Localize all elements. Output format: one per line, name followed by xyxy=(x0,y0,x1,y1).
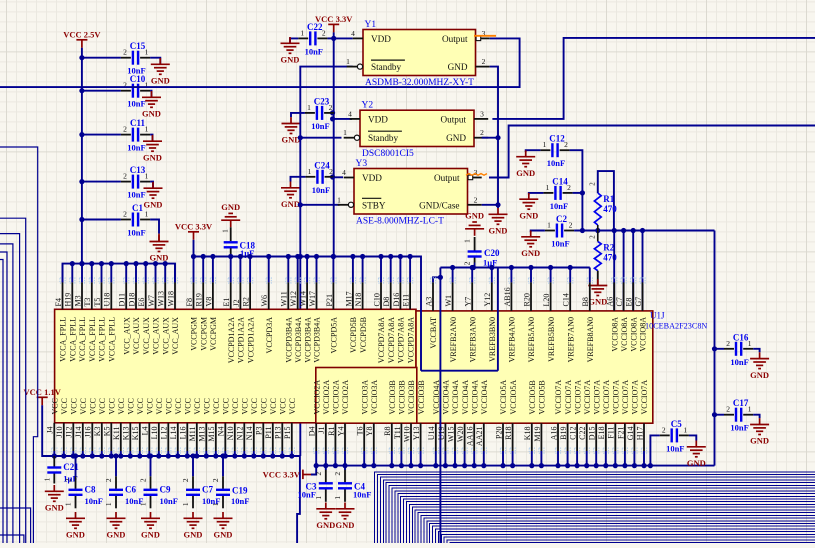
svg-text:VCC: VCC xyxy=(51,398,60,414)
pin AB16 (VREFB4AN0) top xyxy=(509,278,514,283)
wire Y2 Output net to right edge xyxy=(492,38,815,119)
ground of oscillator GND net xyxy=(489,208,508,224)
junction BA/P13 xyxy=(280,453,285,458)
wire C12 pin1 to GND xyxy=(526,150,541,152)
wire C14 pin1 to GND xyxy=(529,193,544,195)
svg-text:L12: L12 xyxy=(160,427,169,440)
svg-text:2: 2 xyxy=(474,195,478,204)
pin 2 GND of Y3 xyxy=(468,204,482,206)
pin W10 (VCCIO3B) bottom xyxy=(408,448,413,453)
capacitor C10 xyxy=(121,84,150,98)
pin W20 (VCCIO4A) bottom xyxy=(462,448,467,453)
pin F11 (VCCIO7A) bottom xyxy=(613,448,618,453)
capacitor C15 xyxy=(121,51,150,65)
pin U19 (VCCIO4A) bottom xyxy=(443,448,448,453)
junction rail/C24/Y3 VDD xyxy=(330,174,335,179)
capacitor C9 xyxy=(144,476,158,508)
power port VCC 3.3V (middle) xyxy=(188,232,199,240)
wire bus B3 xyxy=(440,267,589,269)
svg-text:GND: GND xyxy=(221,202,240,212)
pin M15 (VCC) bottom xyxy=(213,448,218,453)
wire v3 vertical through boxes xyxy=(439,268,441,544)
svg-text:C15: C15 xyxy=(130,41,146,51)
junction rail/C23 xyxy=(330,110,335,115)
wire VCC3.3 port to bus BB xyxy=(311,466,316,475)
capacitor C13 xyxy=(121,175,150,189)
pin H19 (VCCA_FPLL) top xyxy=(70,278,75,283)
svg-text:VCCIO2A: VCCIO2A xyxy=(322,380,331,415)
junction BA/L12 xyxy=(166,453,171,458)
svg-text:VCCPGM: VCCPGM xyxy=(199,317,208,351)
svg-text:GND: GND xyxy=(336,520,355,530)
junction BB/J1 xyxy=(323,463,328,468)
svg-text:C7: C7 xyxy=(615,297,624,306)
pin N4 (VCC) bottom xyxy=(223,448,228,453)
svg-text:GND/Case: GND/Case xyxy=(419,200,459,210)
junction standby/Y2 xyxy=(298,135,303,140)
pin A16 (VCCIO7A) bottom xyxy=(555,448,560,453)
pin M3 (VCCA_FPLL) top xyxy=(79,278,84,283)
wire standby net Y1 to bus xyxy=(300,67,352,257)
junction BB/AA21 xyxy=(481,463,486,468)
wire bus BA to C8 xyxy=(75,456,77,476)
wire C23 pin1 to GND xyxy=(291,113,305,117)
junction B2/W6 xyxy=(266,254,271,259)
junction BB/R8 xyxy=(389,463,394,468)
svg-text:K11: K11 xyxy=(112,427,121,440)
svg-text:GND: GND xyxy=(151,76,170,86)
svg-text:VCCPD1A2A: VCCPD1A2A xyxy=(237,317,246,363)
svg-text:U19: U19 xyxy=(437,427,446,441)
svg-text:VCCPGM: VCCPGM xyxy=(209,317,218,351)
svg-text:Output: Output xyxy=(440,114,466,124)
svg-text:C10: C10 xyxy=(130,74,146,84)
pin W18 (VCC_AUX) top xyxy=(172,278,177,283)
pin J2 (VCCPD1A2A) top xyxy=(238,278,243,283)
wire C2 net to pin G7 xyxy=(642,231,644,333)
pin T3 (VCCA_FPLL) top xyxy=(89,278,94,283)
svg-text:T11: T11 xyxy=(393,427,402,440)
junction BA/N14 xyxy=(251,453,256,458)
svg-text:VCCIO8A: VCCIO8A xyxy=(610,317,619,352)
svg-text:J16: J16 xyxy=(84,427,93,438)
pin H17 (VCCIO7A) bottom xyxy=(641,448,646,453)
svg-text:10nF: 10nF xyxy=(127,190,145,200)
svg-text:B8: B8 xyxy=(581,297,590,306)
svg-text:VDD: VDD xyxy=(368,114,388,124)
ground of C2 xyxy=(521,231,540,247)
junction B3/W1 xyxy=(450,265,455,270)
svg-text:D16: D16 xyxy=(392,293,401,307)
svg-text:GND: GND xyxy=(316,520,335,530)
svg-text:VCCIO2A: VCCIO2A xyxy=(312,380,321,415)
pin Y7 (VREFB3AN0) top xyxy=(470,278,475,283)
svg-text:C21: C21 xyxy=(63,462,79,472)
capacitor C17 xyxy=(724,408,753,422)
junction B1/T5 xyxy=(99,261,104,266)
svg-text:VCCIO7A: VCCIO7A xyxy=(640,380,649,415)
junction BA/K13 xyxy=(128,453,133,458)
svg-text:L16: L16 xyxy=(179,427,188,440)
junction B1/M3 xyxy=(79,261,84,266)
svg-text:VCCPD7A8A: VCCPD7A8A xyxy=(377,317,386,363)
svg-text:2: 2 xyxy=(123,125,127,134)
svg-text:L4: L4 xyxy=(141,427,150,436)
svg-text:VCCIO7A: VCCIO7A xyxy=(583,380,592,415)
junction BA/M15 xyxy=(213,453,218,458)
wire A3 to v3 xyxy=(433,277,440,282)
svg-text:GND: GND xyxy=(448,62,468,72)
svg-text:VCC_AUX: VCC_AUX xyxy=(142,317,151,355)
wire VCC3.3 port to bus B2 xyxy=(193,240,195,257)
svg-text:GND: GND xyxy=(282,135,301,145)
svg-text:470: 470 xyxy=(603,253,617,263)
svg-text:C14: C14 xyxy=(552,176,568,186)
svg-text:J1: J1 xyxy=(317,427,326,434)
svg-text:VCCPD5B: VCCPD5B xyxy=(359,317,368,353)
pin J12 (VCC) bottom xyxy=(71,448,76,453)
svg-text:2: 2 xyxy=(181,478,190,482)
svg-text:W14: W14 xyxy=(299,291,308,307)
svg-text:R18: R18 xyxy=(504,427,513,440)
ground of C17 xyxy=(750,418,769,434)
junction cap rail/C14 xyxy=(580,190,585,195)
svg-text:P3: P3 xyxy=(255,427,264,435)
junction BB/M19 xyxy=(539,463,544,468)
junction B2/W17 xyxy=(314,254,319,259)
svg-text:E8: E8 xyxy=(625,298,634,307)
junction B2/C10 xyxy=(378,254,383,259)
wire bus BB xyxy=(316,465,714,467)
wire Y3 Output net to right edge xyxy=(489,126,815,178)
svg-text:J4: J4 xyxy=(46,427,55,434)
oscillator Y2 xyxy=(360,110,474,146)
pin Y12 (VREFB3BN0) top xyxy=(489,278,494,283)
pin wire C18 top xyxy=(230,227,232,241)
junction B2/J2 xyxy=(238,254,243,259)
svg-text:J12: J12 xyxy=(65,427,74,438)
pin L10 (VCC) bottom xyxy=(156,448,161,453)
junction BB/W20 xyxy=(462,463,467,468)
junction BB/Y4 xyxy=(342,463,347,468)
svg-text:R1: R1 xyxy=(603,194,614,204)
svg-text:GND: GND xyxy=(143,152,162,162)
svg-text:10nF: 10nF xyxy=(353,490,371,500)
svg-text:L14: L14 xyxy=(169,427,178,440)
pin W11 (VCCPD3B4A) top xyxy=(286,278,291,283)
svg-text:VCC: VCC xyxy=(212,398,221,414)
svg-text:VCC 2.5V: VCC 2.5V xyxy=(63,29,101,39)
junction BB/W10 xyxy=(408,463,413,468)
pin R19 (VCCPGM) top xyxy=(201,278,206,283)
wire C2 net to pin E8 xyxy=(632,231,634,333)
junction B2/P21 xyxy=(331,254,336,259)
pin U18 (VCCA_FPLL) top xyxy=(109,278,114,283)
svg-text:GND: GND xyxy=(66,530,85,540)
ground of C12 xyxy=(516,150,535,166)
svg-text:2: 2 xyxy=(64,478,73,482)
svg-text:VCC: VCC xyxy=(193,398,202,414)
junction B2/W14 xyxy=(305,254,310,259)
svg-text:VDD: VDD xyxy=(371,34,391,44)
svg-text:VCCIO3B: VCCIO3B xyxy=(388,380,397,414)
svg-text:GND: GND xyxy=(750,436,769,446)
svg-text:C6: C6 xyxy=(125,484,136,494)
pin R1 (VCCIO2A) bottom xyxy=(333,448,338,453)
capacitor C24 xyxy=(305,170,334,184)
svg-text:1: 1 xyxy=(683,425,687,434)
svg-text:GND: GND xyxy=(687,458,706,468)
svg-text:VCCA_FPLL: VCCA_FPLL xyxy=(98,317,107,362)
svg-text:1: 1 xyxy=(104,502,113,506)
svg-text:VREFB8AN0: VREFB8AN0 xyxy=(586,317,595,362)
svg-text:W18: W18 xyxy=(166,291,175,307)
svg-text:F4: F4 xyxy=(54,298,63,306)
svg-text:VCCIO2A: VCCIO2A xyxy=(341,380,350,415)
svg-text:N18: N18 xyxy=(354,293,363,307)
pin W1 (VREFB2AN0) top xyxy=(450,278,455,283)
junction rail/C13 xyxy=(79,179,84,184)
oscillator Y3 xyxy=(354,169,468,215)
pin P13 (VCC) bottom xyxy=(280,448,285,453)
svg-text:10nF: 10nF xyxy=(666,443,684,453)
junction B2/F8 xyxy=(191,254,196,259)
svg-text:T6: T6 xyxy=(356,427,365,436)
junction BB/AA16 xyxy=(472,463,477,468)
pin G7 (VCCIO8A) top xyxy=(640,278,645,283)
svg-text:2: 2 xyxy=(589,235,597,239)
junction B2/D8 xyxy=(388,254,393,259)
svg-text:W7: W7 xyxy=(147,295,156,307)
svg-text:VCC: VCC xyxy=(250,398,259,414)
pin T6 (VCCIO3A) bottom xyxy=(362,448,367,453)
junction BA/N12 xyxy=(242,453,247,458)
capacitor C11 xyxy=(121,128,150,142)
junction BB/C5 xyxy=(648,463,653,468)
junction standby/bus B2 xyxy=(298,254,303,259)
svg-text:M11: M11 xyxy=(188,427,197,442)
svg-text:C11: C11 xyxy=(130,118,146,128)
junction B1/U18 xyxy=(109,261,114,266)
capacitor C5 xyxy=(660,428,689,442)
svg-text:D8: D8 xyxy=(382,297,391,307)
svg-text:K15: K15 xyxy=(131,427,140,441)
capacitor C22 xyxy=(298,31,327,45)
svg-text:VCCPD3B4A: VCCPD3B4A xyxy=(294,317,303,363)
wire bus BB to C4 xyxy=(344,466,346,470)
svg-text:K5: K5 xyxy=(103,427,112,437)
svg-text:C9: C9 xyxy=(160,484,171,494)
junction BA/C6 xyxy=(113,453,118,458)
ground of C3 xyxy=(316,503,335,519)
svg-text:M3: M3 xyxy=(73,295,82,306)
wire C2 net right vertical down to bottom bus xyxy=(714,231,716,466)
svg-text:L10: L10 xyxy=(150,427,159,440)
svg-text:1: 1 xyxy=(343,128,347,137)
svg-text:VCCBAT: VCCBAT xyxy=(429,317,438,349)
svg-text:VCCPD1A2A: VCCPD1A2A xyxy=(246,317,255,363)
svg-text:VCC: VCC xyxy=(127,398,136,414)
junction rail/C10 xyxy=(79,88,84,93)
capacitor C12 xyxy=(540,143,569,157)
pin K15 (VCC) bottom xyxy=(137,448,142,453)
svg-text:M13: M13 xyxy=(198,427,207,442)
svg-text:10nF: 10nF xyxy=(231,496,249,506)
junction BA/J14 xyxy=(80,453,85,458)
pin N10 (VCC) bottom xyxy=(232,448,237,453)
wire C16 pin2 to rail xyxy=(715,348,725,350)
ground of C15 xyxy=(151,58,170,74)
svg-text:VCCIO7A: VCCIO7A xyxy=(631,380,640,415)
svg-text:VREFB5AN0: VREFB5AN0 xyxy=(527,317,536,362)
wire bus BB to C3 xyxy=(325,466,327,470)
svg-text:4: 4 xyxy=(342,168,346,177)
ground of C24 xyxy=(281,182,300,198)
pin E18 (VCCIO7A) bottom xyxy=(603,448,608,453)
pin Y4 (VCCIO2A) bottom xyxy=(342,448,347,453)
pin C10 (VCCPD7A8A) top xyxy=(378,278,383,283)
svg-text:VCCIO7A: VCCIO7A xyxy=(554,380,563,415)
pin D16 (VCCPD7A8A) top xyxy=(398,278,403,283)
svg-text:VCCIO3B: VCCIO3B xyxy=(417,380,426,414)
svg-text:VCC: VCC xyxy=(165,398,174,414)
svg-text:VCCIO7A: VCCIO7A xyxy=(573,380,582,415)
svg-text:C16: C16 xyxy=(733,332,749,342)
svg-text:E18: E18 xyxy=(597,427,606,440)
svg-text:L20: L20 xyxy=(542,294,551,307)
svg-text:VCCPD3A: VCCPD3A xyxy=(265,317,274,354)
pin J14 (VCC) bottom xyxy=(80,448,85,453)
svg-text:VCCPGM: VCCPGM xyxy=(190,317,199,351)
svg-text:R2: R2 xyxy=(603,243,614,253)
svg-text:VCCIO4A: VCCIO4A xyxy=(451,380,460,415)
svg-text:VCCIO3B: VCCIO3B xyxy=(407,380,416,414)
wire C16 pin1 to GND xyxy=(753,349,759,353)
ground of C5 xyxy=(687,441,706,457)
junction B2/E11 xyxy=(408,254,413,259)
junction B3/L20 xyxy=(548,265,553,270)
pin W15 (VCCIO4A) bottom xyxy=(452,448,457,453)
junction B3/R20 xyxy=(528,265,533,270)
wire VCC3.3 rail vertical xyxy=(333,32,335,256)
svg-text:Y13: Y13 xyxy=(412,427,421,441)
svg-text:C5: C5 xyxy=(671,419,682,429)
svg-text:VREFB3AN0: VREFB3AN0 xyxy=(468,317,477,362)
junction BA/L16 xyxy=(185,453,190,458)
capacitor C1 xyxy=(121,213,150,227)
wire standby to Y2 Standby xyxy=(300,137,341,139)
svg-text:VCCA_FPLL: VCCA_FPLL xyxy=(108,317,117,362)
svg-text:AA21: AA21 xyxy=(475,427,484,447)
svg-text:GND: GND xyxy=(588,297,607,307)
svg-text:AB16: AB16 xyxy=(503,287,512,306)
pin M17 (VCCPD5B) top xyxy=(350,278,355,283)
junction BB/C12 xyxy=(575,463,580,468)
svg-text:U1J: U1J xyxy=(650,311,665,321)
wire C1 to GND xyxy=(150,220,159,234)
junction C2 net/A6 feed xyxy=(612,228,617,233)
capacitor C8 xyxy=(69,476,83,508)
ground of C19 xyxy=(214,512,233,528)
wire C15 to GND xyxy=(150,58,160,64)
junction B2/V8 xyxy=(210,254,215,259)
pin F21 (VCCIO7A) bottom xyxy=(622,448,627,453)
junction B2/W12 xyxy=(295,254,300,259)
svg-text:VCC: VCC xyxy=(60,398,69,414)
junction BB/R18 xyxy=(510,463,515,468)
svg-text:V8: V8 xyxy=(204,297,213,307)
svg-text:Y1: Y1 xyxy=(365,20,377,30)
svg-text:R1: R1 xyxy=(327,427,336,436)
pin M19 (VCCIO5B) bottom xyxy=(539,448,544,453)
svg-text:VCC: VCC xyxy=(288,398,297,414)
capacitor C21 xyxy=(47,456,61,484)
wire C10 to GND xyxy=(150,91,151,97)
junction B2/N18 xyxy=(360,254,365,259)
pin 2 GND of Y2 xyxy=(474,137,488,139)
svg-text:E1: E1 xyxy=(222,298,231,307)
svg-text:1: 1 xyxy=(543,140,547,149)
svg-text:VREFB4AN0: VREFB4AN0 xyxy=(508,317,517,362)
pin W12 (VCCPD3B4A) top xyxy=(295,278,300,283)
pin V8 (VCCPGM) top xyxy=(210,278,215,283)
svg-text:1: 1 xyxy=(139,502,148,506)
svg-text:2: 2 xyxy=(314,472,323,476)
pin E8 (VCCIO8A) top xyxy=(631,278,636,283)
junction BA/M13 xyxy=(204,453,209,458)
pin L4 (VCC) bottom xyxy=(147,448,152,453)
svg-text:W10: W10 xyxy=(402,427,411,443)
junction BB/G14 xyxy=(632,463,637,468)
pin 2 GND of Y1 xyxy=(476,66,490,68)
pin AA16 (VCCIO4A) bottom xyxy=(472,448,477,453)
ground of C22 xyxy=(281,37,300,53)
junction BB/H17 xyxy=(641,463,646,468)
svg-text:VCCIO8A: VCCIO8A xyxy=(620,317,629,352)
svg-text:2: 2 xyxy=(569,221,573,230)
wire Y3 GND/Case pin to GND net xyxy=(482,204,498,206)
svg-text:GND: GND xyxy=(107,530,126,540)
wire C22 pin2 to rail xyxy=(327,37,333,39)
pin E6 (VCC_AUX) top xyxy=(143,278,148,283)
svg-text:M17: M17 xyxy=(344,291,353,306)
svg-text:W15: W15 xyxy=(446,427,455,443)
svg-text:VCC: VCC xyxy=(174,398,183,414)
pin A6 (VCCIO8A) top xyxy=(612,278,617,283)
svg-text:10nF: 10nF xyxy=(127,143,145,153)
svg-text:GND: GND xyxy=(750,370,769,380)
pin W7 (VCC_AUX) top xyxy=(153,278,158,283)
wire bus BA to C7 xyxy=(192,456,194,476)
ground of C7 xyxy=(184,512,203,528)
wire h1 across box xyxy=(421,370,498,372)
junction B2/M17 xyxy=(350,254,355,259)
junction BA/M11 xyxy=(194,453,199,458)
svg-text:E11: E11 xyxy=(402,294,411,307)
svg-text:VCC: VCC xyxy=(98,398,107,414)
junction B1/D18 xyxy=(133,261,138,266)
svg-text:1: 1 xyxy=(300,28,304,37)
junction BA/P11 xyxy=(270,453,275,458)
junction B3/Y12 xyxy=(489,265,494,270)
svg-text:1: 1 xyxy=(42,477,51,481)
svg-text:T3: T3 xyxy=(83,298,92,307)
svg-text:G7: G7 xyxy=(634,297,643,307)
junction BB/R1 xyxy=(333,463,338,468)
ground of C23 xyxy=(282,117,301,133)
junction B3/Y7 xyxy=(470,265,475,270)
junction BB/W15 xyxy=(452,463,457,468)
